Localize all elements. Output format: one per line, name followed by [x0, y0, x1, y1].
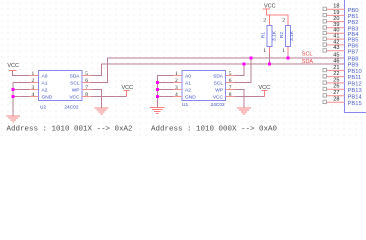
svg-text:24C02: 24C02: [64, 104, 78, 110]
svg-text:27: 27: [333, 90, 339, 96]
svg-text:VCC: VCC: [264, 4, 276, 10]
svg-text:VCC: VCC: [69, 94, 80, 100]
svg-text:A0: A0: [42, 73, 48, 79]
svg-text:SCL: SCL: [214, 80, 224, 86]
svg-text:A1: A1: [185, 80, 191, 86]
svg-text:2: 2: [263, 18, 266, 24]
svg-text:6: 6: [85, 78, 88, 84]
svg-text:WP: WP: [215, 87, 223, 93]
svg-text:WP: WP: [72, 87, 80, 93]
svg-text:7: 7: [85, 85, 88, 91]
svg-text:SCL: SCL: [70, 80, 80, 86]
svg-text:1: 1: [282, 48, 285, 54]
svg-text:GND: GND: [42, 94, 53, 100]
svg-text:SDA: SDA: [70, 73, 81, 79]
svg-text:VCC: VCC: [213, 94, 224, 100]
svg-text:SDA: SDA: [302, 59, 314, 65]
svg-text:2: 2: [31, 78, 34, 84]
svg-text:SDA: SDA: [213, 73, 224, 79]
svg-text:A1: A1: [42, 80, 48, 86]
svg-text:PB2: PB2: [348, 20, 359, 26]
svg-text:VCC: VCC: [259, 85, 271, 91]
svg-text:PB15: PB15: [348, 101, 362, 107]
svg-text:6: 6: [229, 78, 232, 84]
svg-text:GND: GND: [185, 94, 196, 100]
svg-text:4: 4: [175, 92, 178, 98]
svg-text:PB14: PB14: [348, 94, 363, 100]
svg-text:7: 7: [229, 85, 232, 91]
svg-text:R2: R2: [279, 32, 285, 38]
svg-text:PB7: PB7: [348, 49, 359, 55]
svg-text:25: 25: [333, 77, 339, 83]
svg-text:19: 19: [333, 10, 339, 16]
svg-text:21: 21: [333, 65, 339, 71]
svg-text:3: 3: [175, 85, 178, 91]
svg-text:U1: U1: [182, 102, 188, 108]
svg-text:3.1K: 3.1K: [289, 30, 295, 41]
svg-text:U2: U2: [40, 104, 46, 110]
svg-text:PB13: PB13: [348, 88, 362, 94]
svg-text:8: 8: [85, 92, 88, 98]
svg-text:VCC: VCC: [122, 85, 134, 91]
svg-text:Address : 1010 001X --> 0xA2: Address : 1010 001X --> 0xA2: [7, 126, 133, 134]
svg-text:1: 1: [175, 71, 178, 77]
svg-text:PB1: PB1: [348, 14, 359, 20]
svg-text:8: 8: [229, 92, 232, 98]
svg-text:3: 3: [31, 85, 34, 91]
svg-text:PB9: PB9: [348, 63, 359, 69]
svg-text:1: 1: [31, 71, 34, 77]
svg-text:1: 1: [263, 48, 266, 54]
svg-text:R1: R1: [261, 32, 267, 38]
svg-text:20: 20: [333, 16, 339, 22]
svg-text:43: 43: [333, 45, 339, 51]
svg-text:PB0: PB0: [348, 8, 359, 14]
svg-text:A2: A2: [185, 87, 191, 93]
svg-text:3.1K: 3.1K: [272, 30, 278, 41]
svg-text:4: 4: [31, 92, 34, 98]
svg-text:PB10: PB10: [348, 69, 362, 75]
svg-text:2: 2: [175, 78, 178, 84]
svg-text:5: 5: [229, 71, 232, 77]
svg-text:24C02: 24C02: [211, 102, 225, 108]
svg-text:SCL: SCL: [302, 52, 313, 58]
svg-text:2: 2: [282, 18, 285, 24]
svg-text:5: 5: [85, 71, 88, 77]
svg-text:Address : 1010 000X --> 0xA0: Address : 1010 000X --> 0xA0: [151, 126, 278, 134]
svg-text:26: 26: [333, 84, 339, 90]
svg-text:PB12: PB12: [348, 82, 362, 88]
svg-text:18: 18: [333, 4, 339, 10]
svg-text:A0: A0: [185, 73, 191, 79]
svg-text:A2: A2: [42, 87, 48, 93]
svg-text:VCC: VCC: [7, 63, 19, 69]
svg-text:22: 22: [333, 71, 339, 77]
svg-text:28: 28: [333, 97, 339, 103]
svg-text:PB11: PB11: [348, 75, 362, 81]
svg-text:46: 46: [333, 58, 339, 64]
